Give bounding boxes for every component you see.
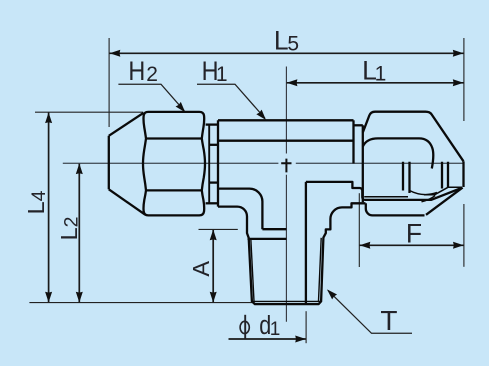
extension line L5/L1 right bbox=[463, 38, 465, 121]
svg-text:1: 1 bbox=[270, 319, 281, 340]
body top edge bbox=[218, 119, 354, 121]
dimension L4 bbox=[48, 113, 50, 303]
right nut band arc bbox=[363, 138, 433, 168]
body right face upper bbox=[352, 120, 354, 163]
extension line F right bbox=[463, 204, 465, 267]
extension line F left bbox=[358, 193, 360, 267]
center cross bbox=[281, 159, 291, 173]
thread inner line right bbox=[319, 238, 322, 301]
left nut band line lower bbox=[146, 189, 202, 191]
dimension phi d1 bbox=[229, 338, 306, 340]
extension line bottom baseline (L4,L2,A) bbox=[29, 302, 252, 304]
left nut cone top diagonal bbox=[109, 113, 144, 136]
body inner bottom-left line with fillet into branch bbox=[218, 189, 262, 230]
branch bore line right / section passage bbox=[306, 182, 461, 304]
extension line A top bbox=[199, 228, 238, 230]
svg-text:1: 1 bbox=[216, 63, 228, 86]
right nut hex edge lines bbox=[403, 162, 448, 193]
svg-text:1: 1 bbox=[375, 62, 387, 85]
right nut left face bbox=[362, 125, 364, 202]
left nut hex flats outline bbox=[143, 112, 205, 215]
sleeve lines between left nut and body bbox=[206, 123, 218, 125]
extension line L5 left bbox=[108, 38, 110, 127]
extension line L4 top bbox=[35, 111, 143, 113]
svg-text:2: 2 bbox=[146, 63, 158, 86]
right nut chamfer arc detail bbox=[422, 196, 436, 202]
dimension L5 bbox=[110, 52, 464, 54]
body inner top line bbox=[218, 140, 354, 142]
extension line phi d1 right bbox=[305, 311, 307, 343]
branch shoulder line left of centerline bbox=[262, 228, 286, 230]
dimension A bbox=[212, 230, 214, 303]
right nut bottom band bbox=[366, 203, 425, 215]
dimension L1 bbox=[287, 82, 464, 84]
vertical centerline bbox=[285, 67, 287, 322]
left nut cone bottom diagonal bbox=[109, 189, 145, 214]
right nut inner underside arcs bbox=[364, 196, 408, 198]
sleeve tube end face bbox=[208, 125, 210, 204]
svg-text:H: H bbox=[128, 56, 145, 86]
label phi d1 bbox=[240, 321, 249, 333]
svg-text:L2: L2 bbox=[56, 216, 83, 240]
svg-text:5: 5 bbox=[287, 32, 299, 55]
left nut cone left face bbox=[108, 136, 110, 190]
dimension L2 bbox=[78, 164, 80, 303]
right nut top outline bbox=[363, 112, 464, 162]
right nut right face bbox=[462, 161, 464, 187]
left nut band line upper bbox=[146, 137, 202, 139]
horizontal centerline bbox=[63, 162, 464, 164]
svg-text:A: A bbox=[188, 261, 214, 277]
dimension F bbox=[360, 244, 464, 246]
right nut bottom cone diagonal bbox=[426, 188, 463, 215]
thread top edge line (left half) bbox=[248, 238, 287, 240]
body bottom outline with branch thread bbox=[218, 203, 366, 304]
svg-text:T: T bbox=[380, 305, 397, 336]
body left face bbox=[217, 120, 219, 206]
sleeve top line right bbox=[354, 124, 363, 126]
thread bottom chamfer edge bbox=[252, 300, 321, 302]
thread inner line left bbox=[251, 238, 254, 301]
svg-text:L4: L4 bbox=[23, 190, 50, 214]
svg-text:F: F bbox=[406, 218, 422, 248]
